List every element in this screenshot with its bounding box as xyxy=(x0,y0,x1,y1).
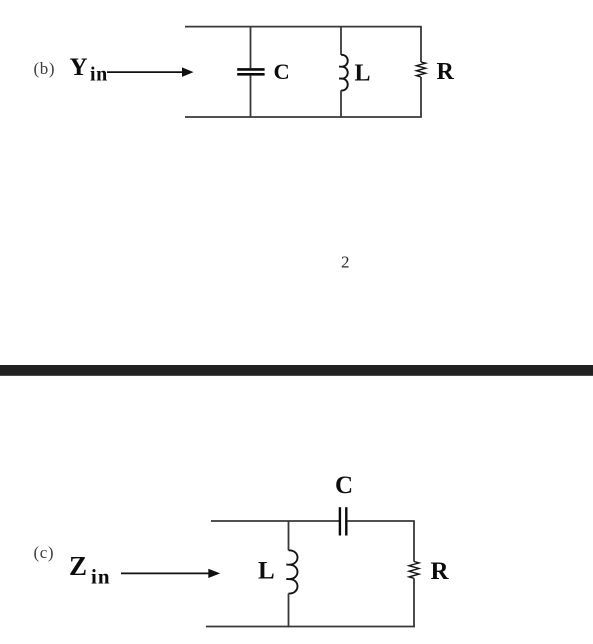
wire: inductor branch upper (c) xyxy=(288,521,290,550)
resistor R (circuit c) xyxy=(409,562,419,579)
svg-text:R: R xyxy=(431,558,450,585)
svg-text:L: L xyxy=(355,60,371,86)
wire: capacitor branch lower (b) xyxy=(250,76,252,117)
wire: resistor branch upper (b) xyxy=(420,27,422,62)
svg-text:(c): (c) xyxy=(34,543,55,562)
svg-text:(b): (b) xyxy=(34,59,56,78)
wire: resistor branch lower (b) xyxy=(420,77,422,117)
wire: capacitor branch upper (b) xyxy=(250,27,252,69)
wire: inductor branch upper (b) xyxy=(340,27,342,55)
svg-text:R: R xyxy=(437,59,455,85)
svg-text:in: in xyxy=(90,64,108,86)
svg-text:C: C xyxy=(335,472,353,499)
wire: resistor branch upper (c) xyxy=(413,521,415,562)
wire: bottom rail (c) xyxy=(206,626,415,628)
svg-text:C: C xyxy=(274,59,290,84)
wire: inductor branch lower (b) xyxy=(340,90,342,117)
svg-text:Y: Y xyxy=(70,54,88,81)
wire: top rail (b) xyxy=(185,26,422,28)
label Z_in xyxy=(69,551,111,589)
arrow: input admittance direction (b) xyxy=(107,67,194,77)
label Y_in xyxy=(70,54,108,86)
inductor L (circuit b) xyxy=(339,55,348,91)
wire: resistor branch lower (c) xyxy=(413,578,415,627)
resistor R (circuit b) xyxy=(416,62,425,77)
wire: top rail left segment (c) xyxy=(211,520,339,522)
page separator bar xyxy=(0,365,593,376)
wire: bottom rail (b) xyxy=(185,116,422,118)
wire: top rail right segment (c) xyxy=(347,520,415,522)
capacitor C (circuit b) xyxy=(237,69,264,74)
svg-text:2: 2 xyxy=(341,253,350,272)
svg-text:Z: Z xyxy=(69,551,87,581)
wire: inductor branch lower (c) xyxy=(288,594,290,628)
svg-text:L: L xyxy=(258,558,275,585)
arrow: input impedance direction (c) xyxy=(121,569,220,578)
inductor L (circuit c) xyxy=(286,550,297,593)
svg-text:in: in xyxy=(91,565,111,589)
capacitor C (circuit c) xyxy=(340,507,346,535)
